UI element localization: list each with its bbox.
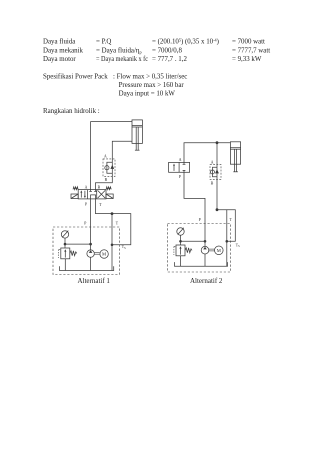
svg-text:TS: TS: [122, 245, 126, 250]
node gauge2 branch: [179, 240, 182, 243]
wire FC2 down to return junction: [216, 179, 218, 209]
svg-text:= (200.105) (0,35 x 10-4): = (200.105) (0,35 x 10-4): [152, 38, 219, 46]
wire relief to tank: [64, 259, 66, 271]
pressure gauge G2: [177, 228, 184, 236]
node gauge branch: [64, 243, 67, 246]
svg-text:T: T: [230, 218, 233, 222]
shaft pump-motor: [94, 252, 100, 254]
tank TK2: [175, 262, 228, 266]
power pack enclosure PP2: [168, 224, 231, 273]
svg-text:= 9,33 kW: = 9,33 kW: [232, 56, 262, 63]
svg-text:= Daya mekanik x fc: = Daya mekanik x fc: [96, 56, 148, 63]
wire pump suction: [90, 257, 92, 270]
pump P2: [201, 246, 209, 254]
wire T2 down to tank: [226, 210, 228, 267]
svg-text:= Daya fluida/ηp: = Daya fluida/ηp: [96, 47, 142, 54]
svg-text:T: T: [99, 203, 102, 207]
svg-text:Daya motor: Daya motor: [43, 56, 76, 63]
wire V1 T to return junction: [96, 199, 113, 214]
wire gauge2 branch to P line: [181, 240, 206, 242]
svg-text:P: P: [179, 175, 181, 179]
svg-text:Rangkaian hidrolik :: Rangkaian hidrolik :: [43, 108, 100, 115]
valve V1 4/3 directional: [71, 187, 113, 199]
svg-text:Alternatif 1: Alternatif 1: [77, 277, 110, 285]
valve V2 2-position: [169, 162, 190, 172]
wire gauge branch to P line: [65, 243, 91, 245]
svg-text:T: T: [116, 222, 119, 226]
solenoid left of V1: [71, 194, 78, 199]
svg-text:B: B: [105, 178, 108, 182]
wire cylinder1 top line: [91, 122, 132, 190]
wire cylinder2 top line: [184, 143, 230, 163]
solenoid right of V1: [106, 194, 113, 199]
node FC2 tee: [216, 141, 219, 144]
relief valve RV1: [59, 248, 77, 259]
svg-text:B: B: [98, 185, 101, 189]
node P2 branch junction: [204, 240, 207, 243]
wire relief2 to tank: [180, 256, 182, 266]
svg-text:M: M: [102, 252, 106, 257]
svg-text:= 7777,7 watt: = 7777,7 watt: [232, 47, 270, 54]
svg-text:P: P: [199, 218, 201, 222]
svg-text:Spesifikasi Power Pack: Spesifikasi Power Pack: [43, 73, 108, 80]
cylinder CYL2: [230, 142, 240, 172]
power pack enclosure PP1: [53, 227, 120, 275]
wire return detour loop: [112, 214, 131, 245]
wire FC1 to valve port B: [96, 176, 113, 189]
cylinder CYL1: [132, 120, 142, 150]
svg-text:Pressure max > 160 bar: Pressure max > 160 bar: [119, 82, 185, 89]
node T junction: [111, 212, 114, 215]
node detour rejoin: [111, 244, 114, 247]
svg-text:Alternatif 2: Alternatif 2: [190, 277, 223, 285]
svg-text:A: A: [85, 185, 88, 189]
svg-text:= 7000 watt: = 7000 watt: [232, 39, 265, 46]
flow control valve FC2: [210, 165, 221, 180]
motor M2: [215, 246, 224, 255]
wire gauge2 stem: [180, 235, 182, 245]
node return junction 2: [216, 208, 219, 211]
flow control valve FC1: [103, 159, 115, 177]
wire gauge stem: [64, 238, 66, 248]
wire return detour loop 2: [217, 210, 235, 242]
svg-text:= P.Q: = P.Q: [96, 39, 111, 46]
svg-text:A: A: [179, 158, 182, 162]
wire cylinder1 bottom port to flow control: [112, 141, 132, 159]
tank TK1: [60, 266, 114, 270]
spring right of V1: [106, 187, 111, 190]
svg-text:Daya mekanik: Daya mekanik: [43, 47, 84, 54]
svg-text:M: M: [217, 248, 221, 253]
node detour rejoin 2: [226, 240, 229, 243]
wire pump2 suction: [204, 254, 206, 266]
svg-text:P: P: [85, 202, 87, 206]
svg-text:: Flow max > 0,35 liter/sec: : Flow max > 0,35 liter/sec: [113, 73, 187, 80]
relief valve RV2: [174, 245, 192, 256]
svg-text:Daya fluida: Daya fluida: [43, 39, 75, 46]
shaft pump2-motor2: [209, 249, 215, 251]
svg-text:A: A: [104, 155, 107, 159]
pump P1: [87, 250, 94, 257]
spring left of V1: [73, 187, 78, 190]
pressure gauge G1: [61, 230, 68, 238]
svg-text:A: A: [211, 160, 214, 164]
svg-text:= 777,7 . 1,2: = 777,7 . 1,2: [152, 56, 187, 63]
wire FC2 riser: [216, 143, 218, 165]
svg-text:P: P: [84, 222, 86, 226]
wire T return down to tank: [111, 214, 113, 271]
node P-branch junction: [89, 243, 92, 246]
wire V1 P to pump: [90, 199, 92, 250]
svg-text:B: B: [211, 181, 214, 185]
svg-text:= 7000/0,8: = 7000/0,8: [152, 47, 182, 54]
wire V2 P to pump: [184, 172, 205, 246]
motor M1: [100, 250, 108, 258]
svg-text:TS: TS: [236, 243, 240, 248]
svg-text:Daya input = 10 kW: Daya input = 10 kW: [119, 91, 176, 98]
